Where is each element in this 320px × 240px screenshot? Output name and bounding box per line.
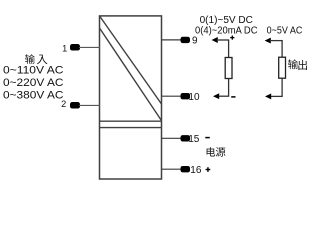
svg-text:10: 10	[188, 92, 200, 103]
polarity plus label at pin 16	[206, 169, 211, 171]
terminal pad 1	[70, 44, 80, 51]
output label 输	[288, 59, 298, 69]
wire load RL2 vertical lower	[281, 78, 283, 96]
svg-text:9: 9	[192, 36, 198, 47]
wire load RL2 bottom horizontal	[270, 95, 283, 97]
power label 电	[207, 147, 216, 156]
svg-text:16: 16	[190, 165, 202, 176]
svg-text:0(1)~5V DC: 0(1)~5V DC	[200, 15, 253, 26]
load resistor RL1	[225, 58, 232, 79]
terminal pad 9	[181, 37, 191, 43]
arrow toward terminal 10 (load RL2 bottom)	[265, 93, 271, 99]
output label 出	[298, 60, 307, 70]
svg-text:0~380V AC: 0~380V AC	[3, 90, 64, 102]
polarity minus label at load RL1 bottom	[231, 96, 235, 98]
separator line lower	[100, 127, 162, 129]
wire load RL2 vertical upper	[281, 41, 283, 58]
isolation barrier diagonal line 1	[100, 16, 162, 104]
input label 入	[37, 55, 47, 65]
isolation barrier diagonal line 2	[100, 28, 162, 121]
svg-text:1: 1	[62, 43, 67, 53]
wire module to terminal 15	[161, 137, 181, 139]
polarity plus label at load RL1 top	[230, 37, 234, 39]
arrow toward terminal 9 (load RL2 top)	[265, 38, 271, 44]
wire terminal 2 to module	[79, 104, 100, 106]
wire terminal 1 to module	[79, 46, 100, 48]
wire load RL1 vertical lower	[228, 79, 230, 97]
input label 输	[25, 54, 35, 64]
terminal pad 2	[70, 102, 80, 109]
terminal pad 16	[181, 166, 191, 172]
svg-text:0~5V AC: 0~5V AC	[267, 26, 303, 37]
arrow into terminal 10 (load RL1 bottom)	[213, 93, 219, 99]
wire load RL1 vertical upper	[228, 40, 230, 58]
polarity minus label at pin 15	[205, 137, 210, 139]
wire load RL2 top horizontal	[270, 40, 283, 42]
terminal pad 10	[181, 93, 191, 99]
load resistor RL2	[279, 57, 286, 78]
power label 源	[216, 147, 226, 156]
separator line upper	[100, 120, 162, 122]
wire load RL1 top horizontal	[217, 39, 230, 41]
arrow into terminal 9 (load RL1 top)	[212, 37, 218, 43]
svg-text:0~220V AC: 0~220V AC	[3, 77, 64, 89]
terminal pad 15	[181, 135, 191, 141]
wire module to terminal 9	[161, 39, 181, 41]
module box U1	[100, 16, 162, 179]
wire module to terminal 16	[161, 168, 181, 170]
wire module to terminal 10	[161, 95, 181, 97]
svg-text:15: 15	[188, 134, 200, 145]
svg-text:0(4)~20mA DC: 0(4)~20mA DC	[195, 26, 258, 37]
svg-text:0~110V AC: 0~110V AC	[3, 65, 64, 77]
wire load RL1 bottom horizontal	[218, 95, 229, 97]
